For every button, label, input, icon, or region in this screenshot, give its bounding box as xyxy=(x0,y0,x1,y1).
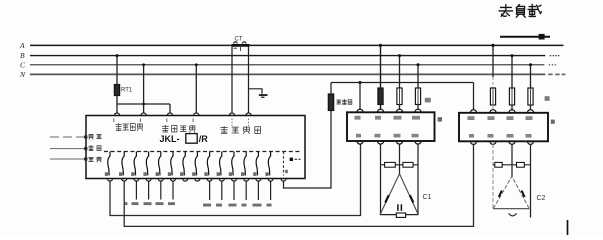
svg-text:B: B xyxy=(20,51,25,60)
svg-text:RT1: RT1 xyxy=(121,88,133,94)
svg-text:/R: /R xyxy=(199,134,209,144)
svg-text:N: N xyxy=(19,70,26,79)
svg-text:C1: C1 xyxy=(423,194,432,201)
svg-text:A: A xyxy=(19,41,25,50)
svg-text:C2: C2 xyxy=(537,195,546,202)
svg-text:C: C xyxy=(20,60,26,69)
svg-text:CT: CT xyxy=(235,37,243,43)
svg-text:JKL-: JKL- xyxy=(160,134,180,144)
